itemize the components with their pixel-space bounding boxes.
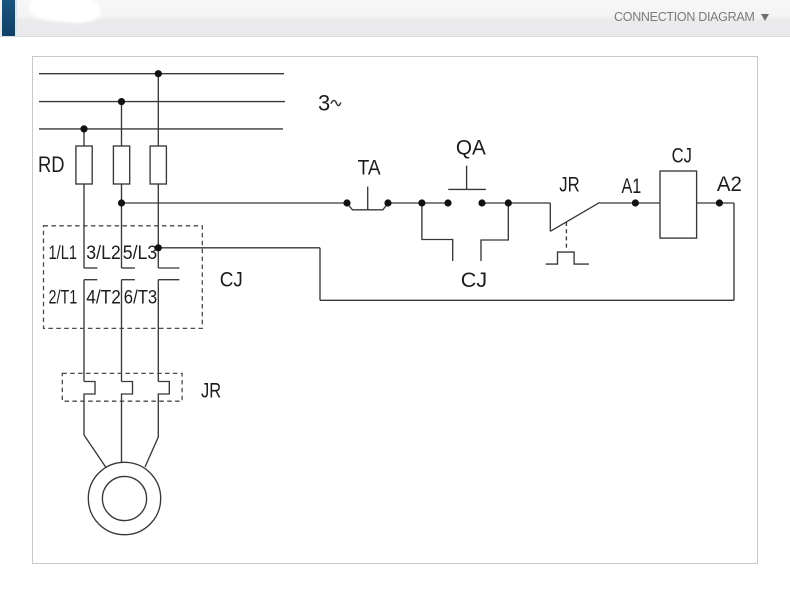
node on L1	[155, 70, 162, 77]
contact JR thermal element symbol	[546, 252, 589, 264]
pushbutton QA bridge	[448, 188, 486, 190]
contact JR actuator dashed link	[565, 222, 567, 250]
svg-text:3/L2: 3/L2	[86, 243, 121, 264]
heater JR element 2	[122, 382, 133, 463]
node control tap on phase 2	[118, 199, 125, 206]
wire QA to JR contact	[482, 202, 550, 204]
heater JR element 3	[158, 382, 169, 438]
svg-text:CJ: CJ	[220, 269, 243, 292]
wire phase line L1	[39, 73, 284, 75]
wire motor lead right diagonal	[145, 437, 158, 467]
fuse RD pole 3	[150, 146, 166, 184]
wire L3 drop to fuse 1	[83, 129, 85, 146]
node CJ aux right	[505, 199, 512, 206]
svg-text:3: 3	[318, 91, 330, 116]
pushbutton TA stem	[367, 187, 369, 210]
contact JR blade	[550, 202, 599, 231]
contact CJ main pole 3 upper tick	[158, 267, 179, 269]
svg-text:CJ: CJ	[672, 145, 692, 168]
svg-text:5/L3: 5/L3	[123, 243, 157, 264]
wire motor lead left diagonal	[84, 435, 106, 468]
motor M outer circle	[88, 462, 160, 534]
node on L2	[118, 98, 125, 105]
contact CJ main pole 1 lower tick	[84, 279, 97, 281]
node A1	[632, 199, 639, 206]
svg-text:A2: A2	[717, 173, 742, 196]
pushbutton TA bridge	[347, 203, 388, 210]
fuse RD pole 1	[76, 146, 92, 184]
wire contact 3 to heater 3	[157, 280, 159, 382]
coil CJ	[660, 171, 697, 238]
svg-text:1/L1: 1/L1	[49, 243, 78, 264]
wire fuse 3 to contact 3	[157, 184, 159, 268]
svg-text:JR: JR	[559, 174, 579, 197]
wire fuse 2 to contact 2	[121, 184, 123, 268]
wire JR to A1	[600, 202, 660, 204]
svg-text:6/T3: 6/T3	[124, 288, 157, 309]
contact CJ main pole 3 lower tick	[158, 279, 179, 281]
wire phase line L2	[39, 101, 285, 103]
wire contact 1 to heater 1	[83, 280, 85, 382]
node 5/L3 tap	[155, 244, 162, 251]
svg-text:4/T2: 4/T2	[86, 288, 121, 309]
node CJ aux left	[418, 199, 425, 206]
node on L3	[80, 125, 87, 132]
node A2	[716, 199, 723, 206]
contactor CJ dashed outline	[44, 226, 203, 329]
fuse RD pole 2	[113, 146, 129, 184]
wire control return to L3 node	[158, 247, 320, 249]
wire fuse 1 to contact 1	[83, 184, 85, 268]
wire control line from L2 node to TA	[122, 202, 348, 204]
wire contact 2 to heater 2	[121, 280, 123, 382]
contact CJ main pole 2 upper tick	[122, 267, 135, 269]
node QA right terminal	[478, 199, 485, 206]
heater JR element 1	[84, 382, 95, 436]
wire A2 down	[733, 203, 735, 300]
wire coil to A2 corner	[697, 202, 734, 204]
svg-text:A1: A1	[622, 175, 642, 198]
node TA right terminal	[384, 199, 391, 206]
contact CJ main pole 2 lower tick	[122, 279, 135, 281]
wire L2 drop to fuse 2	[121, 102, 123, 147]
contact CJ main pole 1 upper tick	[84, 267, 97, 269]
relay JR dashed outline	[62, 373, 182, 401]
wire phase line L3	[39, 128, 283, 130]
contact JR drop	[549, 203, 551, 231]
svg-text:CJ: CJ	[461, 269, 487, 292]
svg-text:TA: TA	[358, 157, 381, 180]
motor M inner circle	[102, 476, 146, 520]
contact CJ auxiliary left branch	[422, 203, 453, 261]
wire control return riser	[319, 248, 321, 300]
wire control return bottom	[320, 299, 734, 301]
svg-text:RD: RD	[38, 152, 65, 177]
label tilde of 3~	[331, 101, 341, 106]
node QA left terminal	[444, 199, 451, 206]
contact CJ auxiliary right branch	[481, 203, 508, 261]
node TA left terminal	[343, 199, 350, 206]
wire L1 drop to fuse 3	[157, 74, 159, 147]
wire TA to QA	[388, 202, 448, 204]
pushbutton QA stem	[466, 166, 468, 190]
svg-text:JR: JR	[201, 380, 221, 403]
svg-text:2/T1: 2/T1	[49, 288, 78, 309]
svg-text:QA: QA	[456, 137, 486, 160]
